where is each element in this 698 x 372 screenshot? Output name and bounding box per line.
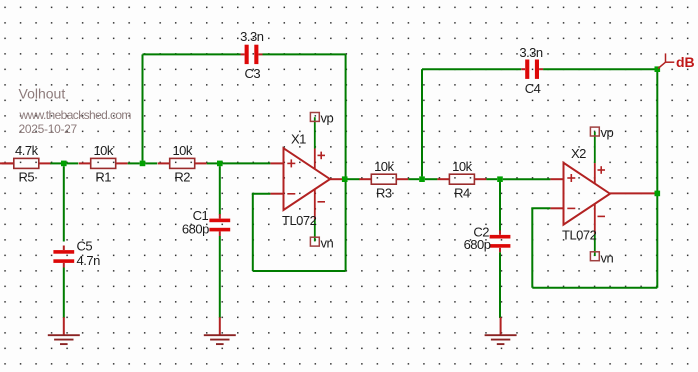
wire R5 to node A bbox=[50, 162, 61, 164]
wire X2 feedback right vertical bbox=[656, 193, 658, 287]
resistor R5 bbox=[2, 158, 51, 168]
wire C1 to ground bbox=[219, 236, 221, 318]
resistor R4 bbox=[437, 174, 486, 184]
op-amp X1 inverting input marker - bbox=[287, 193, 295, 195]
op-amp X1 non-inverting input marker + bbox=[287, 159, 295, 167]
svg-text:Volhout: Volhout bbox=[19, 85, 66, 101]
wire C5 to ground bbox=[63, 268, 65, 319]
wire C3 loop down to X1 output bbox=[345, 54, 347, 179]
svg-text:4.7n: 4.7n bbox=[77, 253, 101, 268]
svg-text:3.3n: 3.3n bbox=[519, 45, 543, 60]
wire C3 loop top left bbox=[143, 53, 241, 55]
node H junction (C4/output port) bbox=[655, 66, 661, 72]
op-amp X1 triangle body bbox=[284, 148, 331, 210]
op-amp X1 supply + marker bbox=[318, 152, 326, 160]
wire X2 feedback top bbox=[531, 207, 550, 209]
svg-text:680p: 680p bbox=[182, 222, 209, 237]
op-amp X2 supply - marker bbox=[598, 215, 606, 217]
node F junction (R4/C2/X2+) bbox=[497, 176, 503, 182]
node B junction (R1/R2/C3) bbox=[140, 161, 146, 167]
op-amp X1 negative supply pin wire bbox=[314, 189, 316, 241]
resistor R2 bbox=[158, 158, 207, 168]
wire R3 to node E bbox=[408, 178, 419, 180]
svg-text:vn: vn bbox=[601, 250, 614, 265]
svg-text:C5: C5 bbox=[77, 239, 93, 254]
svg-text:C4: C4 bbox=[525, 81, 541, 96]
wire node D to R3 bbox=[348, 178, 360, 180]
wire node B to R2 bbox=[145, 162, 157, 164]
op-amp X1 terminal vp square bbox=[310, 113, 319, 122]
svg-text:dB: dB bbox=[676, 54, 695, 70]
op-amp X2 triangle body bbox=[564, 163, 611, 225]
svg-text:TL072: TL072 bbox=[282, 213, 317, 228]
svg-text:R1: R1 bbox=[95, 170, 111, 185]
op-amp X2 terminal vp square bbox=[590, 127, 599, 136]
op-amp X2 positive supply pin wire bbox=[594, 132, 596, 184]
ground symbol under C5 bbox=[48, 317, 80, 344]
node D junction (X1 out) bbox=[342, 176, 348, 182]
op-amp X2 supply + marker bbox=[598, 166, 606, 174]
svg-text:10k: 10k bbox=[93, 143, 113, 158]
output port dB marker bbox=[658, 53, 674, 68]
svg-text:2025-10-27: 2025-10-27 bbox=[19, 122, 78, 136]
capacitor C5 body bbox=[53, 246, 74, 268]
op-amp X1 terminal vn square bbox=[310, 237, 319, 246]
wire node E up to C4 loop bbox=[421, 69, 423, 176]
svg-text:4.7k: 4.7k bbox=[15, 143, 39, 158]
wire node E to R4 bbox=[425, 178, 438, 180]
wire X2 output lead bbox=[610, 192, 655, 194]
wire X2 inverting input lead bbox=[550, 207, 563, 209]
wire R2 to node C bbox=[207, 162, 217, 164]
svg-text:680p: 680p bbox=[464, 237, 491, 252]
wire node C to X1 + input bbox=[223, 162, 271, 164]
resistor R1 bbox=[79, 158, 128, 168]
wire X2 feedback left vertical bbox=[531, 208, 533, 287]
wire input lead to R5 bbox=[0, 162, 14, 164]
svg-text:X2: X2 bbox=[571, 146, 586, 161]
wire C3 loop top right bbox=[263, 53, 346, 55]
capacitor C4 body bbox=[521, 60, 543, 79]
wire C2 to ground bbox=[499, 252, 501, 318]
wire node F down to C2 bbox=[499, 182, 501, 231]
svg-text:10k: 10k bbox=[172, 143, 192, 158]
wire X2 feedback bottom bbox=[532, 287, 657, 289]
wire X1 output lead bbox=[330, 178, 343, 180]
svg-text:10k: 10k bbox=[374, 159, 394, 174]
svg-text:R3: R3 bbox=[376, 185, 392, 200]
wire X1 feedback top bbox=[252, 193, 271, 195]
wire node A to R1 bbox=[67, 162, 79, 164]
node C junction (R2/C1/X1+) bbox=[217, 161, 223, 167]
wire X1 feedback right vertical bbox=[345, 179, 347, 271]
svg-text:www.thebackshed.com: www.thebackshed.com bbox=[19, 108, 132, 122]
op-amp X2 non-inverting input marker + bbox=[567, 174, 575, 182]
node A junction (R5/R1/C5) bbox=[61, 161, 67, 167]
wire X1 feedback left vertical bbox=[252, 194, 254, 271]
svg-text:vn: vn bbox=[321, 236, 334, 251]
node G junction (X2 out) bbox=[655, 191, 661, 197]
op-amp X1 supply - marker bbox=[318, 201, 326, 203]
ground symbol under C2 bbox=[485, 317, 517, 344]
wire node C down to C1 bbox=[219, 166, 221, 214]
wire R1 to node B bbox=[128, 162, 140, 164]
wire R4 to node F bbox=[486, 178, 497, 180]
wire node B up to C3 loop bbox=[142, 54, 144, 160]
svg-text:R4: R4 bbox=[454, 185, 470, 200]
ground symbol under C1 bbox=[204, 317, 236, 344]
svg-text:vp: vp bbox=[601, 125, 614, 140]
node E junction (R3/R4/C4) bbox=[419, 176, 425, 182]
svg-text:C3: C3 bbox=[244, 66, 260, 81]
svg-text:X1: X1 bbox=[291, 131, 306, 146]
op-amp X1 positive supply pin wire bbox=[314, 117, 316, 169]
wire C4 loop top left bbox=[422, 68, 521, 70]
wire X1 non-inverting input lead bbox=[270, 162, 283, 164]
wire X2 non-inverting input lead bbox=[550, 178, 563, 180]
wire C4 loop down to X2 output bbox=[656, 69, 658, 193]
wire node A down to C5 bbox=[63, 166, 65, 241]
capacitor C3 body bbox=[241, 45, 263, 64]
capacitor C1 body bbox=[209, 214, 230, 236]
svg-text:3.3n: 3.3n bbox=[240, 29, 264, 44]
op-amp X2 terminal vn square bbox=[590, 252, 599, 261]
wire X1 feedback bottom bbox=[253, 270, 346, 272]
svg-text:R2: R2 bbox=[174, 170, 190, 185]
svg-text:10k: 10k bbox=[452, 159, 472, 174]
capacitor C2 body bbox=[490, 230, 511, 252]
wire C4 loop top right bbox=[543, 68, 657, 70]
op-amp X2 inverting input marker - bbox=[567, 207, 575, 209]
svg-text:R5: R5 bbox=[18, 170, 34, 185]
svg-text:TL072: TL072 bbox=[562, 228, 597, 243]
op-amp X2 negative supply pin wire bbox=[594, 204, 596, 256]
wire node F to X2 + input bbox=[503, 178, 551, 180]
wire X1 inverting input lead bbox=[270, 193, 283, 195]
svg-text:vp: vp bbox=[321, 111, 334, 126]
resistor R3 bbox=[359, 174, 408, 184]
